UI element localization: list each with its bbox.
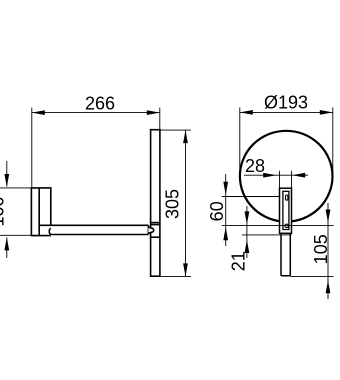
svg-text:28: 28: [245, 156, 265, 176]
svg-text:105: 105: [311, 234, 331, 264]
svg-text:305: 305: [163, 189, 183, 219]
svg-text:Ø193: Ø193: [264, 93, 308, 113]
svg-text:60: 60: [207, 201, 227, 221]
svg-text:266: 266: [85, 94, 115, 114]
svg-text:100: 100: [0, 196, 8, 226]
svg-text:21: 21: [229, 251, 249, 271]
